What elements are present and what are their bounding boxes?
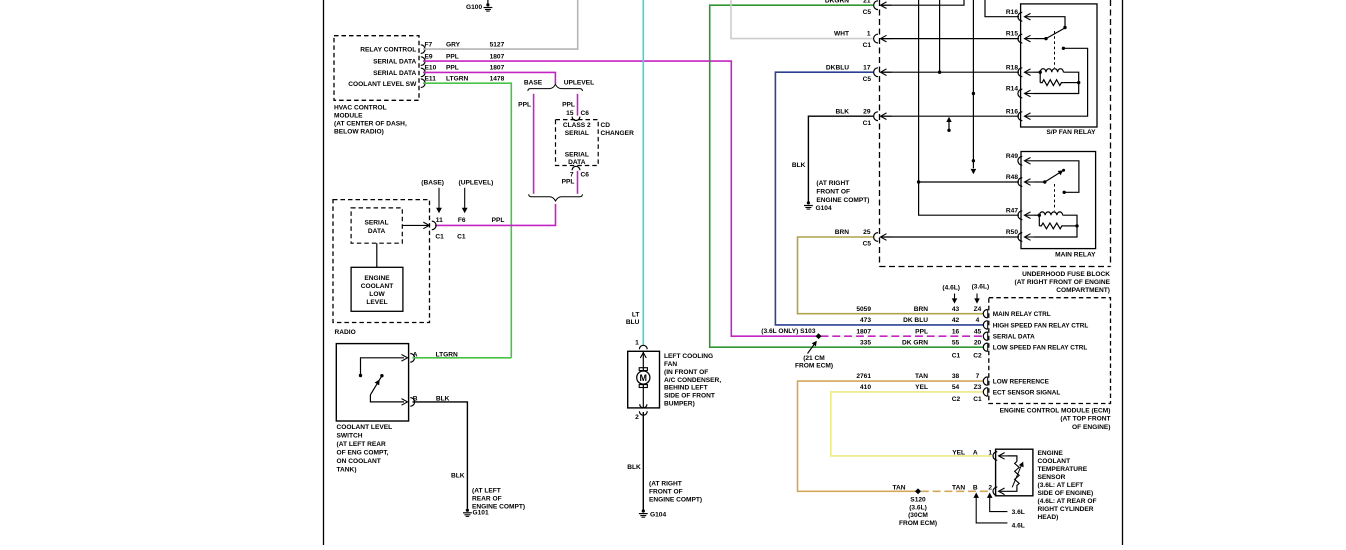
variant arrow 4.6L (973, 493, 979, 498)
svg-text:ENGINE COMPT): ENGINE COMPT) (472, 503, 525, 510)
svg-text:SIDE OF FRONT: SIDE OF FRONT (664, 393, 715, 400)
svg-text:SWITCH: SWITCH (337, 433, 363, 440)
svg-text:(4.6L: AT REAR OF: (4.6L: AT REAR OF (1038, 498, 1097, 505)
fan motor M1 (639, 368, 647, 371)
svg-text:A: A (973, 449, 978, 456)
svg-text:PPL: PPL (915, 328, 928, 335)
svg-text:42: 42 (952, 317, 960, 324)
wire LTGRN 1478 from E11 to coolant level switch (423, 83, 511, 358)
arrow to pin 11 (438, 188, 440, 209)
HVAC pin E11 connector (421, 79, 425, 88)
svg-text:55: 55 (952, 339, 960, 346)
fuse block connector 29 C1 BLK (874, 112, 878, 121)
svg-text:1: 1 (988, 449, 992, 456)
relay pin R47 (1018, 211, 1022, 220)
svg-text:F6: F6 (458, 217, 466, 224)
svg-text:M: M (640, 373, 648, 383)
svg-text:OF ENG COMPT,: OF ENG COMPT, (337, 450, 389, 457)
svg-text:DK BLU: DK BLU (903, 317, 928, 324)
wire R48 branch (919, 181, 1019, 183)
svg-text:(AT CENTER OF DASH,: (AT CENTER OF DASH, (334, 120, 407, 127)
svg-text:RIGHT CYLINDER: RIGHT CYLINDER (1038, 506, 1094, 513)
wire DK GRN 335 low speed fan relay ctrl (710, 5, 984, 347)
svg-text:HVAC CONTROL: HVAC CONTROL (334, 104, 387, 111)
svg-text:CHANGER: CHANGER (601, 130, 635, 137)
S/P fan relay K-FAN box (1021, 4, 1097, 127)
ECM pin connectors (983, 310, 987, 318)
fan motor internal wire (642, 351, 644, 408)
svg-text:(AT LEFT REAR: (AT LEFT REAR (337, 441, 387, 448)
svg-text:TAN: TAN (892, 484, 905, 491)
svg-text:C1: C1 (435, 234, 444, 241)
HVAC pin E10 connector (421, 68, 425, 77)
svg-text:BRN: BRN (914, 306, 929, 313)
svg-text:R16: R16 (1006, 108, 1018, 115)
svg-text:TEMPERATURE: TEMPERATURE (1038, 466, 1088, 473)
svg-text:ENGINE: ENGINE (364, 275, 390, 282)
page border right (1122, 0, 1124, 545)
svg-text:25: 25 (863, 229, 871, 236)
fan relay coil to R14 (1034, 83, 1079, 94)
svg-text:ENGINE COMPT): ENGINE COMPT) (816, 197, 869, 204)
svg-text:20: 20 (974, 339, 982, 346)
svg-text:LEVEL: LEVEL (366, 299, 387, 306)
svg-text:SERIAL: SERIAL (565, 152, 589, 159)
svg-text:MAIN RELAY: MAIN RELAY (1055, 251, 1096, 258)
svg-text:7: 7 (570, 172, 574, 179)
wire BLK 29 to G104 (808, 116, 873, 201)
svg-text:FAN: FAN (664, 361, 677, 368)
svg-text:C2: C2 (973, 353, 982, 360)
svg-text:E9: E9 (425, 53, 433, 60)
svg-text:16: 16 (952, 328, 960, 335)
svg-text:410: 410 (860, 384, 871, 391)
svg-text:38: 38 (952, 373, 960, 380)
svg-text:21: 21 (863, 0, 871, 4)
svg-text:1807: 1807 (856, 328, 871, 335)
main relay common wire (1034, 181, 1044, 183)
sensor thermistor RT1 (1008, 456, 1017, 462)
svg-text:R50: R50 (1006, 229, 1018, 236)
switch blade (370, 376, 381, 395)
wire TAN low reference (798, 381, 985, 491)
ground G100 (487, 0, 489, 5)
brace split BASE/UPLEVEL (528, 84, 583, 91)
svg-text:SERIAL: SERIAL (365, 219, 389, 226)
svg-text:(3.6L): (3.6L) (909, 504, 927, 511)
switch internal wire A (361, 358, 405, 374)
svg-text:LTGRN: LTGRN (446, 75, 468, 82)
radio box (333, 200, 430, 323)
wire PPL base branch (533, 94, 535, 194)
engine coolant low level box (351, 267, 403, 311)
engine control module ECM box (989, 298, 1111, 404)
svg-text:ENGINE CONTROL MODULE (ECM): ENGINE CONTROL MODULE (ECM) (1000, 407, 1111, 414)
svg-text:R49: R49 (1006, 153, 1018, 160)
wire PPL 1807 from E9 serial data (423, 61, 817, 336)
wire PPL uplevel branch (577, 94, 579, 116)
svg-text:COOLANT LEVEL SW: COOLANT LEVEL SW (348, 81, 417, 88)
svg-text:FRONT OF: FRONT OF (649, 488, 683, 495)
svg-text:LEFT COOLING: LEFT COOLING (664, 353, 713, 360)
svg-text:REAR OF: REAR OF (472, 495, 502, 502)
svg-text:PPL: PPL (446, 53, 459, 60)
svg-text:LT: LT (632, 311, 640, 318)
main relay switch blade (1045, 172, 1062, 183)
svg-text:(AT TOP FRONT: (AT TOP FRONT (1060, 416, 1110, 423)
underhood fuse block box (879, 0, 881, 267)
wire PPL from CD changer pin 7 (577, 171, 579, 194)
arrow to pin F6 (464, 188, 466, 209)
fan relay switch blade (1046, 28, 1065, 38)
switch internal wire B (370, 395, 404, 402)
svg-text:COOLANT: COOLANT (361, 283, 394, 290)
svg-text:C1: C1 (952, 353, 961, 360)
svg-text:FRONT OF: FRONT OF (816, 189, 850, 196)
svg-text:PPL: PPL (492, 217, 505, 224)
wire PPL to radio (435, 204, 556, 226)
svg-text:11: 11 (436, 217, 443, 224)
switch terminal A (402, 355, 408, 362)
svg-text:DATA: DATA (368, 228, 386, 235)
svg-text:1478: 1478 (490, 75, 505, 82)
HVAC pin F7 connector (421, 45, 425, 54)
wire fuse block row 29 internal (882, 115, 1020, 117)
svg-text:PPL: PPL (446, 65, 459, 72)
svg-text:C5: C5 (863, 9, 872, 16)
fuse block connector 1 C1 WHT (874, 34, 878, 43)
svg-text:SIDE OF ENGINE): SIDE OF ENGINE) (1038, 490, 1094, 497)
svg-text:COOLANT: COOLANT (1038, 458, 1071, 465)
svg-text:BLK: BLK (835, 108, 849, 115)
wire BLK fan to G104 (642, 412, 644, 510)
svg-text:R16: R16 (1006, 9, 1018, 16)
radio output connector (402, 224, 428, 226)
wire DK BLU high speed fan relay ctrl (775, 72, 984, 325)
svg-text:ENGINE COMPT): ENGINE COMPT) (649, 496, 702, 503)
fuse block connector 17 C5 DKBLU (874, 68, 878, 77)
wire LTGRN switch A (413, 357, 512, 359)
HVAC pin E9 connector (421, 57, 425, 66)
svg-text:BASE: BASE (524, 79, 543, 86)
fan relay fixed contact wire (1034, 17, 1065, 27)
brace merge to radio (529, 194, 583, 201)
svg-text:E10: E10 (425, 65, 437, 72)
CD changer box (556, 120, 599, 166)
svg-text:2: 2 (988, 484, 992, 491)
relay pin R14 (1018, 89, 1022, 98)
junction dot row 17 (938, 71, 941, 74)
svg-text:R15: R15 (1006, 31, 1018, 38)
svg-text:OF ENGINE): OF ENGINE) (1072, 424, 1110, 431)
svg-text:R14: R14 (1006, 86, 1018, 93)
svg-text:1: 1 (635, 339, 639, 346)
wire WHT from top (731, 0, 873, 39)
relay pin R16 top (1018, 12, 1022, 21)
svg-text:DATA: DATA (568, 159, 586, 166)
svg-text:Z3: Z3 (974, 384, 982, 391)
svg-text:G101: G101 (473, 510, 489, 517)
svg-text:G104: G104 (650, 511, 666, 518)
fan pin 2 (639, 411, 647, 415)
svg-text:C2: C2 (952, 396, 961, 403)
switch contact dot (359, 374, 362, 377)
svg-text:G104: G104 (816, 205, 832, 212)
engine coolant temperature sensor box (996, 449, 1033, 496)
svg-text:54: 54 (952, 384, 960, 391)
svg-text:ENGINE: ENGINE (1038, 450, 1064, 457)
ground G104 fan (642, 509, 645, 512)
svg-text:BELOW RADIO): BELOW RADIO) (334, 128, 384, 135)
svg-text:C1: C1 (863, 42, 872, 49)
wire PPL 1807 from E10 (423, 72, 555, 84)
svg-text:1807: 1807 (490, 53, 505, 60)
svg-text:5059: 5059 (856, 306, 871, 313)
wire YEL ECT sensor signal (831, 392, 991, 456)
wire fuse block row 25 internal to R50 (882, 236, 1020, 238)
svg-text:WHT: WHT (834, 31, 849, 38)
svg-text:G100: G100 (466, 4, 482, 11)
svg-text:B: B (973, 484, 978, 491)
wire BLK from switch B to G101 (413, 402, 468, 509)
stub junction on row 29 (946, 117, 951, 122)
wire fuse block vertical E (985, 0, 1019, 17)
svg-text:(IN FRONT OF: (IN FRONT OF (664, 369, 708, 376)
svg-text:29: 29 (863, 108, 871, 115)
junction dot R49 (972, 159, 975, 162)
splice S103 (816, 333, 822, 339)
sensor pin 2 connector (993, 487, 997, 496)
junction dot R14 (972, 92, 975, 95)
svg-text:ECT SENSOR SIGNAL: ECT SENSOR SIGNAL (993, 389, 1061, 396)
svg-text:RADIO: RADIO (335, 329, 356, 336)
left cooling fan box (628, 351, 660, 408)
svg-text:SERIAL DATA: SERIAL DATA (373, 70, 416, 77)
switch terminal B (402, 399, 408, 406)
svg-text:BLK: BLK (792, 162, 806, 169)
S103 annotation arrow (808, 343, 816, 354)
svg-text:15: 15 (566, 110, 574, 117)
variant arrow 3.6L (987, 493, 993, 498)
svg-text:COOLANT LEVEL: COOLANT LEVEL (337, 424, 393, 431)
svg-text:SENSOR: SENSOR (1038, 474, 1066, 481)
svg-text:(AT RIGHT: (AT RIGHT (816, 180, 849, 187)
relay pin R48 (1018, 178, 1022, 187)
svg-text:DKBLU: DKBLU (826, 64, 849, 71)
wire BRN main relay ctrl (798, 237, 985, 314)
wire TAN dashed 3.6L segment (921, 490, 991, 492)
svg-text:BRN: BRN (835, 229, 850, 236)
svg-text:C6: C6 (581, 110, 590, 117)
sensor pin 1 connector (993, 452, 997, 461)
svg-text:(AT LEFT: (AT LEFT (472, 487, 501, 494)
HVAC control module U-HVAC box (334, 36, 419, 101)
svg-text:SERIAL DATA: SERIAL DATA (993, 334, 1035, 341)
svg-text:R47: R47 (1006, 207, 1018, 214)
wire fuse block vertical A (919, 0, 1019, 215)
svg-text:A/C CONDENSER,: A/C CONDENSER, (664, 377, 721, 384)
svg-text:LOW REFERENCE: LOW REFERENCE (993, 379, 1050, 386)
svg-text:TAN: TAN (952, 484, 965, 491)
relay pin R15 (1018, 34, 1022, 43)
main relay coil to R50 (1034, 226, 1077, 237)
svg-text:CD: CD (601, 122, 611, 129)
fuse block connector 25 C5 BRN (874, 233, 878, 242)
svg-text:R18: R18 (1006, 64, 1018, 71)
svg-text:HIGH SPEED FAN RELAY CTRL: HIGH SPEED FAN RELAY CTRL (993, 322, 1089, 329)
svg-text:PPL: PPL (562, 101, 575, 108)
svg-text:SERIAL: SERIAL (565, 130, 589, 137)
svg-text:Z4: Z4 (974, 306, 982, 313)
svg-text:5127: 5127 (490, 41, 505, 48)
svg-text:BLK: BLK (451, 473, 465, 480)
svg-text:2761: 2761 (856, 373, 871, 380)
svg-text:DKGRN: DKGRN (825, 0, 849, 4)
svg-text:4: 4 (976, 317, 980, 324)
svg-text:UNDERHOOD FUSE BLOCK: UNDERHOOD FUSE BLOCK (1022, 271, 1110, 278)
main relay resistor R-MAIN (1038, 215, 1040, 226)
wire serial data to coolant low level (376, 243, 378, 267)
fan relay actuator dashed link (1054, 31, 1056, 68)
main relay contact wire (1034, 161, 1079, 193)
wire fuse block vertical B (939, 0, 941, 72)
fan relay resistor R-FAN (1039, 72, 1041, 82)
relay pin R50 (1018, 233, 1022, 242)
svg-text:(4.6L): (4.6L) (942, 285, 960, 292)
connector 7 C6 (572, 166, 580, 170)
svg-text:TAN: TAN (915, 373, 928, 380)
wire PPL 1807 dashed 3.6L segment to ECM (821, 335, 985, 337)
svg-text:GRY: GRY (446, 41, 461, 48)
relay pin R16 bottom (1018, 112, 1022, 121)
ground G104 right (807, 201, 810, 204)
svg-text:TANK): TANK) (337, 467, 357, 474)
svg-text:C1: C1 (457, 234, 466, 241)
svg-text:F7: F7 (425, 41, 433, 48)
main relay coil L2 (1034, 214, 1039, 216)
svg-text:4.6L: 4.6L (1012, 523, 1025, 530)
wire fuse block row 21 internal (882, 0, 965, 5)
relay pin R49 (1018, 156, 1022, 165)
svg-text:PPL: PPL (518, 101, 531, 108)
svg-text:C6: C6 (581, 172, 590, 179)
svg-text:C1: C1 (973, 396, 982, 403)
svg-text:PPL: PPL (562, 179, 575, 186)
splice S120 (915, 488, 921, 494)
svg-text:UPLEVEL: UPLEVEL (564, 79, 594, 86)
fan motor bottom connector (640, 404, 647, 408)
fuse block connector 21 C5 DKGRN (874, 1, 878, 10)
svg-text:473: 473 (860, 317, 871, 324)
thermistor arrow (1012, 466, 1021, 488)
svg-text:FROM ECM): FROM ECM) (795, 362, 833, 369)
svg-text:MAIN RELAY CTRL: MAIN RELAY CTRL (993, 311, 1051, 318)
svg-text:LOW: LOW (369, 291, 385, 298)
svg-text:(BASE): (BASE) (421, 180, 444, 187)
svg-text:C5: C5 (863, 241, 872, 248)
svg-text:BEHIND LEFT: BEHIND LEFT (664, 385, 708, 392)
main relay actuator dashed link (1054, 184, 1056, 211)
wire fuse block row 1 internal (882, 38, 1020, 40)
junction dot R48 branch (917, 180, 920, 183)
svg-text:43: 43 (952, 306, 960, 313)
svg-text:BLU: BLU (626, 319, 640, 326)
relay pin R18 (1018, 68, 1022, 77)
radio serial data box (351, 208, 402, 243)
svg-text:E11: E11 (425, 75, 437, 82)
svg-text:3.6L: 3.6L (1012, 509, 1025, 516)
fan relay coil L1 (1034, 71, 1040, 73)
ground G101 (466, 509, 469, 512)
svg-text:DK GRN: DK GRN (902, 339, 928, 346)
svg-text:(21 CM: (21 CM (803, 355, 825, 362)
svg-text:HEAD): HEAD) (1038, 514, 1059, 521)
page border left (323, 0, 325, 545)
wire GRY 5127 from F7 to top (423, 0, 578, 49)
svg-text:(UPLEVEL): (UPLEVEL) (459, 180, 494, 187)
svg-text:BLK: BLK (627, 464, 641, 471)
fan relay second contact (1062, 47, 1065, 50)
fan relay common wire (1034, 38, 1045, 40)
svg-text:C1: C1 (863, 120, 872, 127)
svg-text:BUMPER): BUMPER) (664, 401, 695, 408)
svg-text:45: 45 (974, 328, 982, 335)
svg-text:SERIAL DATA: SERIAL DATA (373, 59, 416, 66)
svg-text:(3.6L: AT LEFT: (3.6L: AT LEFT (1038, 482, 1084, 489)
svg-text:(AT RIGHT: (AT RIGHT (649, 480, 682, 487)
svg-text:FROM ECM): FROM ECM) (899, 520, 937, 527)
svg-text:7: 7 (976, 373, 980, 380)
arrow continuation down (971, 169, 977, 174)
svg-text:C5: C5 (863, 76, 872, 83)
svg-text:YEL: YEL (952, 449, 965, 456)
svg-text:ON COOLANT: ON COOLANT (337, 458, 381, 465)
svg-text:CLASS 2: CLASS 2 (563, 122, 591, 129)
svg-text:MODULE: MODULE (334, 112, 363, 119)
svg-text:COMPARTMENT): COMPARTMENT) (1056, 287, 1110, 294)
svg-text:YEL: YEL (915, 384, 928, 391)
svg-text:1: 1 (867, 31, 871, 38)
svg-text:(3.6L): (3.6L) (972, 284, 990, 291)
svg-text:R48: R48 (1006, 174, 1018, 181)
wire LT BLU to cooling fan (642, 0, 644, 345)
svg-text:335: 335 (860, 339, 871, 346)
main relay K-MAIN box (1021, 152, 1096, 249)
wire fuse block row 17 internal (882, 71, 1020, 73)
svg-text:RELAY CONTROL: RELAY CONTROL (360, 47, 416, 54)
wire fuse block vertical D (972, 0, 974, 168)
svg-text:1807: 1807 (490, 65, 505, 72)
svg-text:(AT RIGHT FRONT OF ENGINE: (AT RIGHT FRONT OF ENGINE (1015, 279, 1111, 286)
svg-text:17: 17 (863, 64, 871, 71)
svg-text:S/P FAN RELAY: S/P FAN RELAY (1046, 129, 1096, 136)
coolant level switch box (336, 344, 408, 421)
svg-text:S120: S120 (910, 497, 926, 504)
svg-text:(3.6L ONLY) S103: (3.6L ONLY) S103 (761, 328, 816, 335)
svg-text:LOW SPEED FAN RELAY CTRL: LOW SPEED FAN RELAY CTRL (993, 345, 1088, 352)
svg-text:(30CM: (30CM (908, 512, 928, 519)
svg-text:2: 2 (635, 414, 639, 421)
